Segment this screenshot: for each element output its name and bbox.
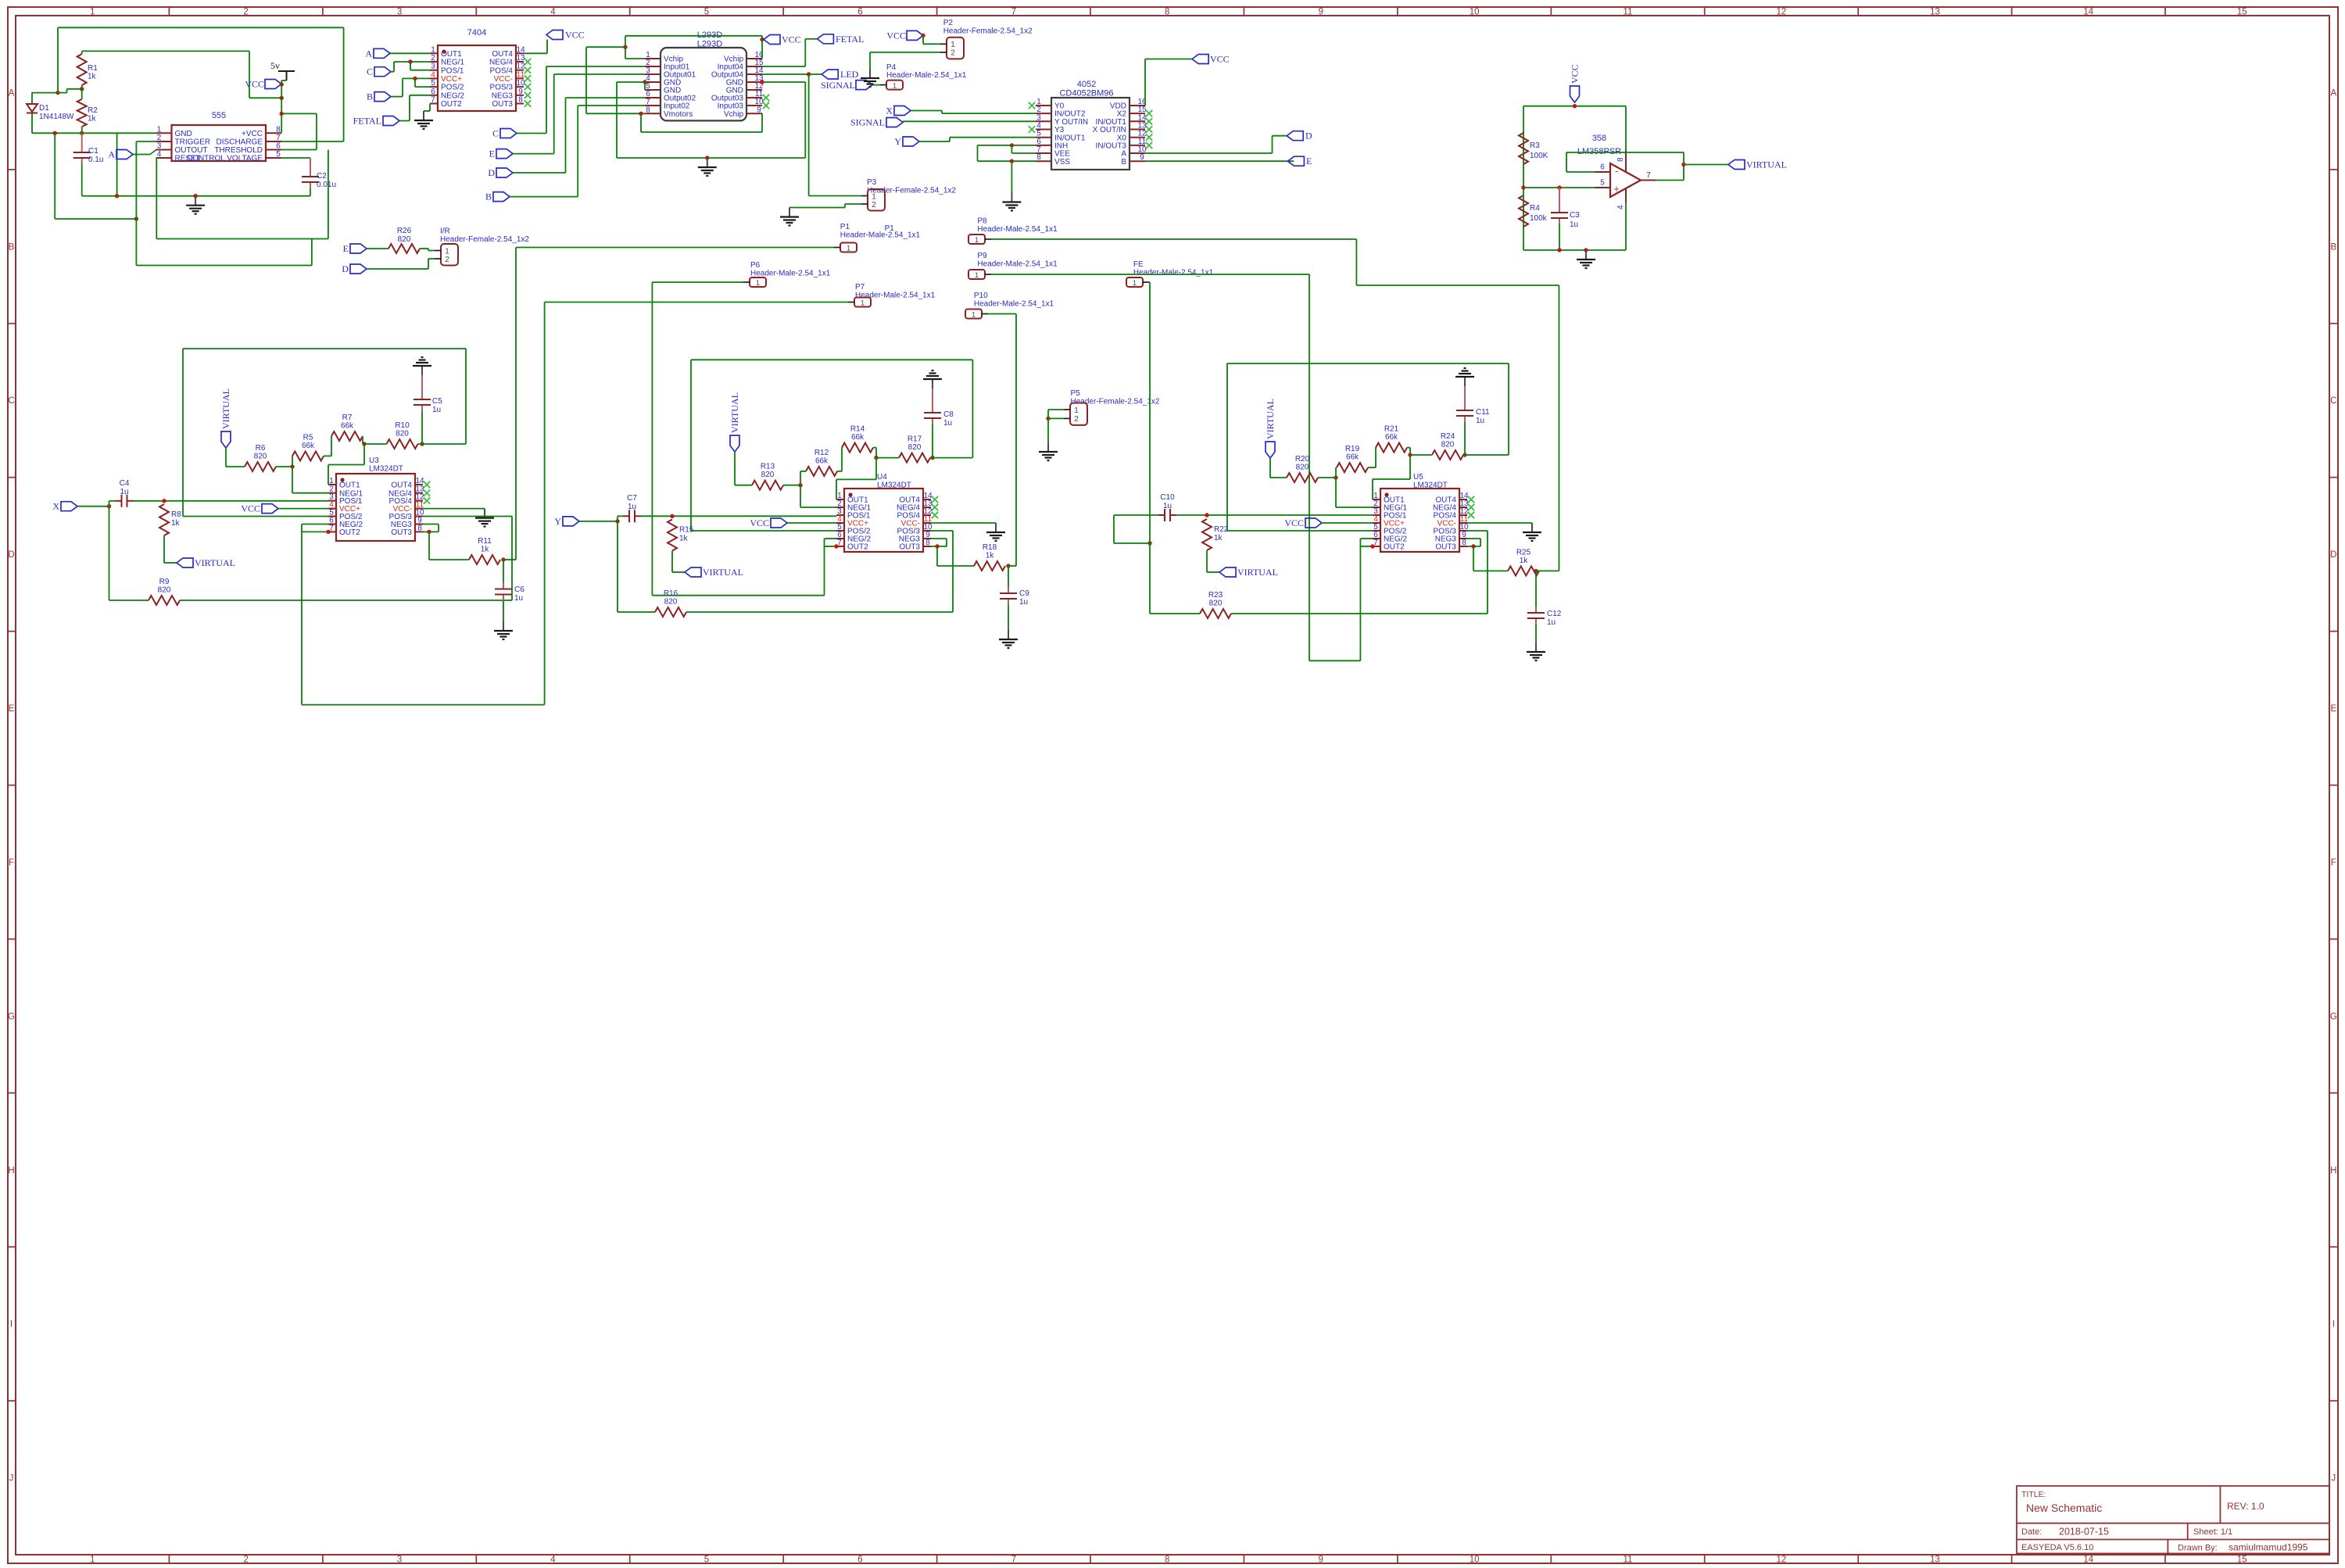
svg-text:7: 7 bbox=[1646, 171, 1651, 180]
svg-text:Header-Female-2.54_1x2: Header-Female-2.54_1x2 bbox=[867, 187, 956, 195]
svg-text:Y: Y bbox=[894, 136, 901, 147]
svg-text:SIGNAL: SIGNAL bbox=[821, 80, 855, 91]
svg-text:66k: 66k bbox=[302, 442, 315, 450]
svg-text:1u: 1u bbox=[943, 419, 952, 428]
svg-text:EASYEDA V5.6.10: EASYEDA V5.6.10 bbox=[2021, 1543, 2093, 1552]
svg-text:13: 13 bbox=[1930, 7, 1940, 16]
svg-text:1: 1 bbox=[847, 244, 850, 252]
svg-text:E: E bbox=[343, 243, 349, 254]
svg-text:VCC: VCC bbox=[1570, 64, 1581, 84]
svg-text:SIGNAL: SIGNAL bbox=[850, 117, 885, 128]
svg-text:8: 8 bbox=[925, 539, 930, 547]
svg-text:R19: R19 bbox=[1345, 445, 1360, 453]
svg-text:I: I bbox=[10, 1320, 13, 1330]
svg-text:820: 820 bbox=[761, 471, 775, 479]
svg-text:Date:: Date: bbox=[2021, 1527, 2042, 1537]
svg-text:7: 7 bbox=[431, 96, 435, 105]
svg-text:R1: R1 bbox=[88, 64, 98, 73]
svg-text:1: 1 bbox=[972, 310, 976, 319]
svg-text:0.1u: 0.1u bbox=[88, 156, 103, 164]
svg-text:2: 2 bbox=[872, 201, 876, 209]
svg-text:FETAL: FETAL bbox=[836, 34, 864, 45]
svg-text:2: 2 bbox=[431, 54, 435, 63]
svg-text:NEG3: NEG3 bbox=[492, 91, 514, 100]
svg-text:Header-Male-2.54_1x1: Header-Male-2.54_1x1 bbox=[977, 225, 1058, 234]
svg-text:VCC: VCC bbox=[886, 30, 906, 41]
svg-text:14: 14 bbox=[415, 477, 424, 485]
svg-text:9: 9 bbox=[757, 106, 761, 114]
svg-text:2: 2 bbox=[1074, 415, 1079, 424]
svg-text:VIRTUAL: VIRTUAL bbox=[1746, 159, 1787, 170]
svg-text:POS/1: POS/1 bbox=[441, 66, 464, 75]
svg-text:1: 1 bbox=[756, 279, 760, 288]
svg-text:H: H bbox=[2330, 1166, 2336, 1176]
svg-text:R9: R9 bbox=[159, 578, 170, 586]
svg-text:11: 11 bbox=[1624, 7, 1633, 16]
svg-text:R10: R10 bbox=[395, 421, 410, 430]
svg-text:4: 4 bbox=[1616, 205, 1625, 209]
svg-text:VCC: VCC bbox=[1210, 54, 1230, 65]
svg-text:Header-Male-2.54_1x1: Header-Male-2.54_1x1 bbox=[855, 292, 936, 300]
svg-text:R2: R2 bbox=[88, 106, 98, 115]
svg-text:VCC: VCC bbox=[750, 517, 769, 528]
svg-text:15: 15 bbox=[2237, 7, 2247, 16]
svg-text:Vmotors: Vmotors bbox=[664, 110, 693, 119]
svg-text:P2: P2 bbox=[943, 19, 954, 27]
svg-text:8: 8 bbox=[276, 125, 281, 134]
svg-text:9: 9 bbox=[1318, 7, 1323, 16]
svg-text:9: 9 bbox=[1318, 1555, 1323, 1564]
svg-text:+: + bbox=[1613, 183, 1620, 195]
svg-text:Header-Male-2.54_1x1: Header-Male-2.54_1x1 bbox=[886, 71, 967, 80]
svg-text:8: 8 bbox=[1165, 1555, 1169, 1564]
svg-text:1N4148W: 1N4148W bbox=[39, 113, 74, 121]
svg-text:66k: 66k bbox=[851, 433, 865, 442]
svg-text:OUT3: OUT3 bbox=[1435, 543, 1456, 552]
svg-text:C10: C10 bbox=[1160, 493, 1175, 502]
svg-text:-: - bbox=[1615, 165, 1618, 177]
svg-text:R15: R15 bbox=[679, 526, 694, 535]
svg-text:555: 555 bbox=[212, 111, 226, 120]
svg-text:66k: 66k bbox=[1385, 433, 1398, 442]
svg-text:1u: 1u bbox=[1163, 502, 1172, 510]
svg-text:CD4052BM96: CD4052BM96 bbox=[1059, 89, 1113, 98]
svg-text:8: 8 bbox=[1616, 157, 1625, 162]
svg-text:820: 820 bbox=[398, 235, 411, 244]
svg-text:1: 1 bbox=[951, 41, 955, 49]
svg-text:820: 820 bbox=[254, 453, 267, 461]
svg-text:1: 1 bbox=[90, 7, 95, 16]
svg-text:R22: R22 bbox=[1214, 525, 1229, 534]
svg-text:R20: R20 bbox=[1295, 455, 1310, 464]
svg-text:VSS: VSS bbox=[1054, 158, 1070, 166]
svg-text:10: 10 bbox=[516, 79, 525, 88]
svg-text:1u: 1u bbox=[514, 594, 523, 603]
svg-text:POS/2: POS/2 bbox=[441, 84, 464, 92]
svg-text:12: 12 bbox=[516, 63, 525, 71]
svg-text:D: D bbox=[1305, 131, 1312, 141]
svg-text:1k: 1k bbox=[1520, 557, 1529, 565]
svg-text:VCC: VCC bbox=[241, 503, 260, 514]
svg-text:C: C bbox=[2330, 396, 2336, 406]
svg-text:A: A bbox=[2330, 89, 2336, 98]
svg-text:P3: P3 bbox=[867, 178, 877, 187]
svg-text:TRIGGER: TRIGGER bbox=[175, 138, 211, 147]
svg-text:R3: R3 bbox=[1530, 141, 1540, 150]
svg-text:P10: P10 bbox=[974, 292, 988, 300]
svg-text:LM324DT: LM324DT bbox=[877, 481, 911, 490]
svg-text:7404: 7404 bbox=[467, 28, 486, 38]
svg-text:A: A bbox=[108, 149, 115, 160]
svg-text:Sheet: 1/1: Sheet: 1/1 bbox=[2193, 1527, 2232, 1537]
svg-text:A: A bbox=[9, 89, 15, 98]
svg-text:4: 4 bbox=[550, 7, 556, 16]
svg-text:820: 820 bbox=[664, 598, 678, 607]
svg-text:1: 1 bbox=[445, 247, 449, 256]
svg-text:1u: 1u bbox=[1019, 598, 1028, 607]
svg-text:POS/4: POS/4 bbox=[490, 66, 514, 75]
svg-text:6: 6 bbox=[276, 142, 281, 151]
svg-text:OUT3: OUT3 bbox=[391, 528, 412, 537]
svg-text:358: 358 bbox=[1592, 134, 1606, 143]
svg-text:B: B bbox=[1121, 158, 1126, 166]
svg-text:C7: C7 bbox=[627, 494, 637, 503]
svg-text:1k: 1k bbox=[481, 546, 490, 554]
svg-text:C5: C5 bbox=[432, 397, 442, 406]
svg-text:C1: C1 bbox=[88, 147, 98, 156]
svg-text:100K: 100K bbox=[1530, 152, 1548, 160]
svg-text:66k: 66k bbox=[1346, 453, 1359, 462]
svg-text:C: C bbox=[492, 128, 499, 139]
svg-text:P1: P1 bbox=[840, 223, 850, 231]
svg-text:R13: R13 bbox=[761, 463, 775, 471]
svg-text:G: G bbox=[8, 1012, 15, 1022]
svg-text:4052: 4052 bbox=[1077, 80, 1096, 89]
svg-text:5v: 5v bbox=[270, 60, 280, 71]
svg-text:D: D bbox=[488, 167, 495, 178]
svg-text:1k: 1k bbox=[171, 519, 181, 528]
svg-text:OUT2: OUT2 bbox=[339, 528, 360, 537]
svg-text:R12: R12 bbox=[814, 449, 829, 457]
svg-text:Header-Male-2.54_1x1: Header-Male-2.54_1x1 bbox=[750, 270, 831, 278]
svg-text:VCC: VCC bbox=[782, 34, 801, 45]
svg-text:E: E bbox=[9, 704, 15, 714]
svg-text:+VCC: +VCC bbox=[242, 130, 263, 138]
svg-text:OUT4: OUT4 bbox=[492, 50, 513, 59]
svg-text:L293D: L293D bbox=[697, 40, 722, 49]
svg-text:Header-Male-2.54_1x1: Header-Male-2.54_1x1 bbox=[977, 260, 1058, 269]
svg-text:R14: R14 bbox=[850, 425, 865, 434]
svg-text:Header-Male-2.54_1x1: Header-Male-2.54_1x1 bbox=[1133, 269, 1214, 277]
svg-text:Header-Male-2.54_1x1: Header-Male-2.54_1x1 bbox=[974, 300, 1054, 309]
svg-text:DISCHARGE: DISCHARGE bbox=[217, 138, 263, 147]
svg-text:1k: 1k bbox=[88, 115, 97, 124]
svg-text:11: 11 bbox=[1624, 1555, 1633, 1564]
svg-text:VIRTUAL: VIRTUAL bbox=[1237, 567, 1278, 578]
svg-text:Header-Female-2.54_1x2: Header-Female-2.54_1x2 bbox=[440, 235, 529, 244]
svg-text:VIRTUAL: VIRTUAL bbox=[220, 388, 231, 429]
svg-text:Header-Female-2.54_1x2: Header-Female-2.54_1x2 bbox=[1071, 398, 1160, 406]
svg-text:New Schematic: New Schematic bbox=[2026, 1502, 2102, 1514]
svg-text:3: 3 bbox=[397, 1555, 402, 1564]
svg-text:14: 14 bbox=[2083, 1555, 2093, 1564]
svg-text:5: 5 bbox=[704, 1555, 709, 1564]
svg-text:2: 2 bbox=[951, 49, 955, 58]
svg-text:12: 12 bbox=[1777, 1555, 1787, 1564]
svg-text:8: 8 bbox=[1165, 7, 1169, 16]
svg-text:7: 7 bbox=[1011, 7, 1016, 16]
svg-text:C2: C2 bbox=[317, 172, 327, 181]
svg-text:6: 6 bbox=[1600, 163, 1605, 172]
svg-text:OUT1: OUT1 bbox=[339, 481, 360, 490]
svg-text:820: 820 bbox=[396, 430, 409, 439]
svg-text:1: 1 bbox=[975, 271, 979, 280]
svg-text:10: 10 bbox=[1470, 1555, 1480, 1564]
svg-text:C: C bbox=[367, 66, 373, 77]
svg-text:6: 6 bbox=[431, 88, 435, 96]
svg-text:1: 1 bbox=[893, 81, 897, 90]
svg-text:3: 3 bbox=[431, 63, 435, 71]
svg-text:VCC: VCC bbox=[1284, 517, 1304, 528]
svg-text:R16: R16 bbox=[664, 589, 678, 598]
svg-text:14: 14 bbox=[2083, 7, 2093, 16]
svg-text:1u: 1u bbox=[120, 488, 128, 496]
svg-text:R17: R17 bbox=[908, 435, 922, 444]
svg-text:1u: 1u bbox=[1570, 220, 1578, 229]
svg-text:2: 2 bbox=[243, 1555, 248, 1564]
svg-text:B: B bbox=[2330, 242, 2336, 252]
svg-text:15: 15 bbox=[2237, 1555, 2247, 1564]
svg-text:6: 6 bbox=[857, 1555, 862, 1564]
svg-text:0.01u: 0.01u bbox=[317, 181, 336, 189]
svg-text:2018-07-15: 2018-07-15 bbox=[2059, 1527, 2109, 1538]
svg-text:9: 9 bbox=[1140, 153, 1144, 162]
svg-text:R7: R7 bbox=[342, 413, 353, 422]
svg-text:NEG/1: NEG/1 bbox=[441, 59, 464, 67]
svg-text:R21: R21 bbox=[1384, 425, 1399, 434]
svg-text:P8: P8 bbox=[977, 217, 987, 226]
svg-text:X: X bbox=[52, 501, 59, 512]
svg-text:Header-Male-2.54_1x1: Header-Male-2.54_1x1 bbox=[840, 231, 921, 240]
svg-text:H: H bbox=[8, 1166, 14, 1176]
svg-text:A: A bbox=[365, 48, 372, 59]
svg-text:LM358PSR: LM358PSR bbox=[1577, 147, 1621, 156]
svg-text:B: B bbox=[367, 91, 373, 102]
svg-text:J: J bbox=[9, 1474, 14, 1484]
svg-text:NEG/2: NEG/2 bbox=[441, 91, 464, 100]
svg-text:5: 5 bbox=[276, 150, 281, 159]
svg-text:D: D bbox=[2330, 550, 2336, 560]
svg-text:9: 9 bbox=[518, 88, 523, 96]
svg-text:U5: U5 bbox=[1413, 473, 1423, 481]
svg-text:CONTROL VOLTAGE: CONTROL VOLTAGE bbox=[187, 155, 263, 163]
svg-text:2: 2 bbox=[243, 7, 248, 16]
svg-text:LM324DT: LM324DT bbox=[369, 465, 403, 474]
svg-text:THRESHOLD: THRESHOLD bbox=[214, 146, 263, 155]
svg-text:820: 820 bbox=[1209, 600, 1223, 608]
svg-text:OUT3: OUT3 bbox=[899, 543, 920, 552]
svg-text:C6: C6 bbox=[514, 585, 524, 594]
svg-text:F: F bbox=[2331, 858, 2336, 868]
svg-text:1: 1 bbox=[861, 299, 865, 307]
svg-text:C3: C3 bbox=[1570, 211, 1580, 220]
svg-text:1k: 1k bbox=[1214, 534, 1223, 542]
svg-text:REV: 1.0: REV: 1.0 bbox=[2227, 1501, 2264, 1512]
svg-text:Y: Y bbox=[554, 516, 561, 527]
svg-text:4: 4 bbox=[550, 1555, 556, 1564]
svg-text:1k: 1k bbox=[679, 535, 689, 543]
svg-text:VCC: VCC bbox=[245, 79, 264, 90]
svg-text:1u: 1u bbox=[1476, 417, 1484, 425]
svg-text:7: 7 bbox=[1011, 1555, 1016, 1564]
svg-text:1u: 1u bbox=[1547, 618, 1556, 627]
svg-text:820: 820 bbox=[908, 443, 922, 452]
svg-text:8: 8 bbox=[1462, 539, 1466, 547]
svg-text:NEG/4: NEG/4 bbox=[489, 59, 513, 67]
svg-text:R4: R4 bbox=[1530, 204, 1540, 213]
svg-text:5: 5 bbox=[1600, 179, 1605, 188]
svg-text:820: 820 bbox=[1296, 464, 1309, 472]
svg-text:P7: P7 bbox=[855, 283, 865, 292]
svg-text:66k: 66k bbox=[341, 422, 354, 431]
svg-text:1: 1 bbox=[872, 192, 876, 201]
svg-text:4: 4 bbox=[431, 70, 435, 79]
svg-text:OUTOUT: OUTOUT bbox=[175, 146, 208, 155]
svg-text:1: 1 bbox=[157, 125, 162, 134]
svg-text:66k: 66k bbox=[815, 456, 829, 465]
svg-text:7: 7 bbox=[276, 134, 281, 142]
svg-text:OUT2: OUT2 bbox=[441, 100, 462, 109]
svg-text:FE: FE bbox=[1133, 260, 1144, 269]
svg-text:1k: 1k bbox=[986, 552, 995, 560]
svg-text:VCC: VCC bbox=[565, 30, 585, 41]
svg-text:1: 1 bbox=[1074, 406, 1079, 415]
svg-text:C8: C8 bbox=[943, 410, 954, 419]
svg-text:D: D bbox=[342, 263, 349, 274]
svg-text:VIRTUAL: VIRTUAL bbox=[1265, 399, 1276, 439]
svg-text:R24: R24 bbox=[1441, 432, 1455, 441]
svg-text:100k: 100k bbox=[1530, 214, 1548, 223]
svg-text:R5: R5 bbox=[303, 433, 313, 442]
svg-text:1: 1 bbox=[329, 477, 334, 485]
svg-text:Header-Female-2.54_1x2: Header-Female-2.54_1x2 bbox=[943, 27, 1033, 36]
svg-text:R11: R11 bbox=[478, 537, 492, 546]
svg-text:B: B bbox=[9, 242, 15, 252]
svg-text:VIRTUAL: VIRTUAL bbox=[703, 567, 743, 578]
svg-text:C: C bbox=[8, 396, 14, 406]
svg-text:8: 8 bbox=[518, 96, 523, 105]
svg-text:2: 2 bbox=[157, 134, 162, 142]
svg-text:R23: R23 bbox=[1208, 591, 1223, 600]
svg-text:C4: C4 bbox=[120, 479, 130, 488]
svg-text:U4: U4 bbox=[877, 473, 887, 481]
svg-text:C12: C12 bbox=[1547, 610, 1562, 618]
svg-text:1u: 1u bbox=[628, 503, 636, 511]
svg-text:LM324DT: LM324DT bbox=[1413, 481, 1448, 490]
svg-text:1: 1 bbox=[1133, 279, 1137, 288]
svg-text:1k: 1k bbox=[88, 73, 97, 81]
svg-text:6: 6 bbox=[857, 7, 862, 16]
svg-text:G: G bbox=[2330, 1012, 2337, 1022]
svg-text:OUT2: OUT2 bbox=[847, 543, 868, 552]
svg-text:8: 8 bbox=[646, 106, 650, 114]
svg-text:OUT3: OUT3 bbox=[492, 100, 513, 109]
svg-text:E: E bbox=[1306, 156, 1312, 166]
svg-text:R25: R25 bbox=[1516, 548, 1531, 557]
svg-text:R18: R18 bbox=[983, 543, 997, 552]
svg-text:VIRTUAL: VIRTUAL bbox=[729, 392, 740, 433]
svg-text:C9: C9 bbox=[1019, 589, 1029, 598]
svg-text:D: D bbox=[8, 550, 14, 560]
svg-text:11: 11 bbox=[517, 70, 525, 79]
svg-text:FETAL: FETAL bbox=[353, 116, 381, 127]
svg-text:VCC+: VCC+ bbox=[441, 75, 462, 84]
svg-text:OUT2: OUT2 bbox=[1384, 543, 1405, 552]
svg-text:12: 12 bbox=[1777, 7, 1787, 16]
svg-text:P6: P6 bbox=[750, 261, 761, 270]
svg-text:OUT4: OUT4 bbox=[391, 481, 412, 490]
svg-text:LED: LED bbox=[840, 69, 859, 80]
svg-text:R6: R6 bbox=[256, 444, 266, 453]
svg-text:820: 820 bbox=[158, 586, 171, 595]
svg-text:3: 3 bbox=[157, 142, 162, 151]
svg-text:P5: P5 bbox=[1071, 389, 1081, 398]
svg-text:R8: R8 bbox=[171, 510, 181, 519]
svg-text:820: 820 bbox=[1441, 441, 1455, 449]
svg-text:8: 8 bbox=[1036, 153, 1041, 162]
svg-text:13: 13 bbox=[1930, 1555, 1940, 1564]
svg-text:1: 1 bbox=[975, 236, 979, 245]
svg-text:POS/3: POS/3 bbox=[490, 84, 514, 92]
svg-text:I: I bbox=[2332, 1320, 2335, 1330]
svg-text:4: 4 bbox=[157, 150, 162, 159]
svg-text:Drawn By:: Drawn By: bbox=[2178, 1544, 2218, 1553]
svg-text:E: E bbox=[489, 149, 495, 159]
svg-text:D1: D1 bbox=[39, 104, 49, 113]
svg-text:5: 5 bbox=[431, 79, 435, 88]
svg-text:VIRTUAL: VIRTUAL bbox=[195, 557, 235, 568]
svg-text:F: F bbox=[9, 858, 14, 868]
svg-text:5: 5 bbox=[704, 7, 709, 16]
svg-text:1: 1 bbox=[90, 1555, 95, 1564]
svg-text:2: 2 bbox=[445, 256, 449, 264]
svg-text:B: B bbox=[485, 192, 492, 202]
svg-text:10: 10 bbox=[1470, 7, 1480, 16]
svg-text:8: 8 bbox=[417, 524, 422, 532]
svg-text:P9: P9 bbox=[977, 252, 987, 260]
svg-text:GND: GND bbox=[175, 130, 192, 138]
svg-text:E: E bbox=[2330, 704, 2336, 714]
svg-text:I/R: I/R bbox=[440, 227, 450, 236]
svg-text:Vchip: Vchip bbox=[724, 110, 743, 119]
svg-text:VCC-: VCC- bbox=[494, 75, 513, 84]
svg-text:1: 1 bbox=[431, 45, 435, 54]
svg-text:R26: R26 bbox=[397, 227, 412, 235]
svg-text:13: 13 bbox=[516, 54, 525, 63]
svg-text:U3: U3 bbox=[369, 456, 379, 465]
svg-text:J: J bbox=[2331, 1474, 2336, 1484]
svg-text:1u: 1u bbox=[432, 406, 441, 414]
svg-text:C11: C11 bbox=[1476, 408, 1490, 417]
svg-text:samiulmamud1995: samiulmamud1995 bbox=[2229, 1542, 2308, 1553]
svg-text:3: 3 bbox=[397, 7, 402, 16]
svg-text:TITLE:: TITLE: bbox=[2021, 1490, 2046, 1499]
svg-text:X: X bbox=[886, 106, 893, 116]
